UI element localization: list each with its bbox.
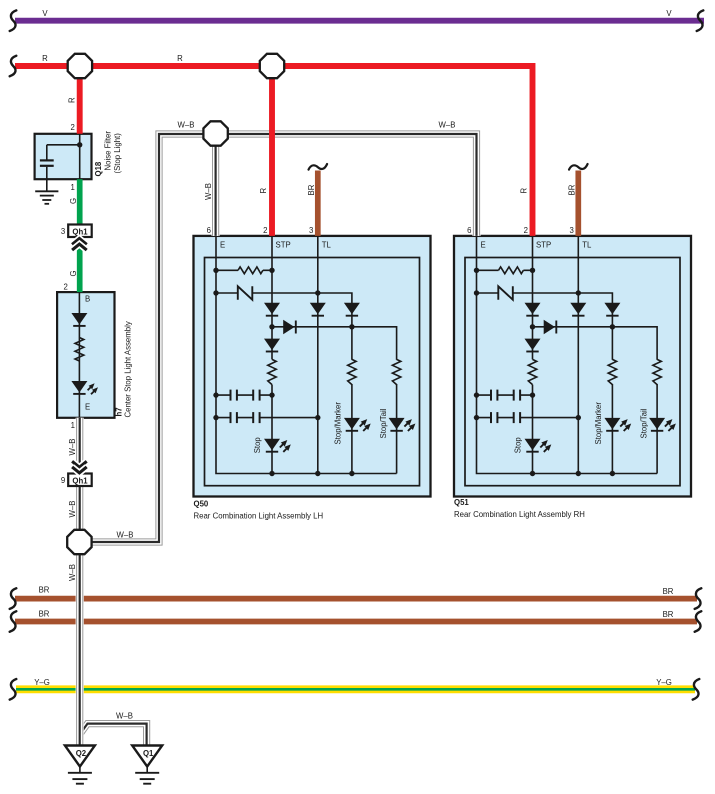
svg-text:Qh1: Qh1 bbox=[72, 476, 88, 485]
svg-text:6: 6 bbox=[207, 226, 211, 235]
connector Qh1 pin 3 bbox=[61, 225, 92, 238]
wire W-B h7 to splice bbox=[76, 418, 84, 531]
continuation mark V right bbox=[697, 10, 704, 31]
svg-text:Q50: Q50 bbox=[194, 500, 209, 509]
continuation mark Y-G left bbox=[10, 679, 17, 700]
resistor in h7 bbox=[75, 338, 84, 362]
Q50 LED stop bbox=[264, 439, 291, 452]
Q50 diode branch bbox=[344, 303, 360, 316]
svg-text:R: R bbox=[259, 188, 268, 194]
Q50 LED stop/tail bbox=[389, 418, 416, 431]
Q51 LED stop/tail bbox=[649, 418, 676, 431]
svg-text:Y–G: Y–G bbox=[656, 678, 672, 687]
svg-text:STP: STP bbox=[276, 241, 291, 250]
Q50 wire resistor row bbox=[216, 269, 272, 271]
Q51 diode right-pointing bbox=[544, 320, 557, 334]
wire BR bus 1 bbox=[15, 596, 697, 602]
svg-text:(Stop Light): (Stop Light) bbox=[113, 133, 122, 174]
Q51 capacitor pair row 2 bbox=[477, 412, 579, 423]
Q51 wire resistor row bbox=[477, 269, 533, 271]
Q51 diode STP lower bbox=[525, 339, 541, 352]
svg-text:E: E bbox=[220, 241, 225, 250]
Q50 wire N row bbox=[216, 293, 352, 474]
continuation mark BR at Q51 TL bbox=[569, 164, 588, 170]
svg-text:W–B: W–B bbox=[439, 121, 456, 130]
svg-text:W–B: W–B bbox=[204, 183, 213, 200]
svg-text:h7: h7 bbox=[114, 407, 123, 416]
svg-text:W–B: W–B bbox=[117, 530, 134, 539]
Q50 resistor tail bbox=[391, 360, 401, 384]
Q51 resistor tail bbox=[652, 360, 662, 384]
svg-text:R: R bbox=[519, 188, 528, 194]
svg-text:R: R bbox=[68, 97, 77, 103]
Q50 outer box bbox=[194, 236, 431, 497]
ground inside Q18 bbox=[35, 179, 58, 204]
svg-text:B: B bbox=[85, 295, 90, 304]
svg-text:E: E bbox=[481, 241, 486, 250]
Q51 outer box bbox=[454, 236, 691, 497]
Q50 capacitor pair row 1 bbox=[216, 390, 272, 401]
svg-text:2: 2 bbox=[64, 282, 68, 291]
Q51 diode branch bbox=[604, 303, 620, 316]
Q51 N element bbox=[498, 286, 513, 299]
svg-text:E: E bbox=[85, 403, 90, 412]
svg-text:W–B: W–B bbox=[116, 712, 133, 721]
svg-text:BR: BR bbox=[663, 587, 674, 596]
svg-text:Q51: Q51 bbox=[454, 498, 469, 507]
Q50 inner box bbox=[205, 258, 420, 486]
svg-text:W–B: W–B bbox=[68, 501, 77, 518]
svg-text:2: 2 bbox=[263, 226, 267, 235]
wire W-B from splice to Q51 pin 6 bbox=[79, 134, 476, 542]
wire R to Q50 STP bbox=[269, 66, 275, 236]
ground point Q1 bbox=[132, 746, 162, 784]
svg-text:BR: BR bbox=[39, 585, 50, 594]
connector Qh1 pin 9 bbox=[61, 474, 92, 487]
ground point Q2 bbox=[65, 746, 95, 784]
Q50 resistor marker bbox=[347, 360, 357, 384]
svg-text:Y–G: Y–G bbox=[34, 678, 50, 687]
LED in h7 bbox=[71, 381, 98, 394]
svg-text:Stop/Tail: Stop/Tail bbox=[639, 408, 648, 438]
Q50 resistor E-STP bbox=[238, 267, 263, 274]
svg-text:Stop: Stop bbox=[514, 437, 523, 454]
svg-text:Stop/Marker: Stop/Marker bbox=[594, 402, 603, 445]
svg-text:Rear Combination Light Assembl: Rear Combination Light Assembly LH bbox=[194, 512, 324, 521]
continuation mark V left bbox=[10, 10, 17, 31]
connector chevron up at Qh1 pin 3 bbox=[72, 239, 87, 251]
wire G Q18 to Qh1 bbox=[77, 179, 83, 224]
svg-text:3: 3 bbox=[309, 226, 313, 235]
wire BR to Q50 TL bbox=[315, 171, 321, 236]
continuation mark BR2 right bbox=[695, 611, 702, 632]
Q50 diode TL bbox=[310, 303, 326, 316]
wire V purple bus bbox=[15, 18, 704, 24]
Q51 LED stop bbox=[525, 439, 552, 452]
wire R to Q18 bbox=[77, 66, 83, 134]
Q51 inner box bbox=[465, 258, 680, 486]
svg-text:BR: BR bbox=[663, 610, 674, 619]
splice node on W-B ground line bbox=[67, 530, 91, 554]
svg-text:Q1: Q1 bbox=[143, 749, 154, 758]
Q51 diode STP bbox=[525, 303, 541, 316]
svg-text:9: 9 bbox=[61, 476, 65, 485]
wire Y-G bus bbox=[16, 685, 695, 693]
svg-text:Center Stop Light Assembly: Center Stop Light Assembly bbox=[123, 321, 132, 417]
wire G Qh1 to h7 bbox=[77, 237, 83, 292]
continuation mark BR1 left bbox=[10, 588, 17, 609]
wire W-B drop to Q50 pin 6 bbox=[212, 134, 220, 236]
Q18 internal wiring bbox=[47, 134, 83, 179]
svg-text:1: 1 bbox=[71, 421, 75, 430]
svg-text:Rear Combination Light Assembl: Rear Combination Light Assembly RH bbox=[454, 510, 585, 519]
Q50 diode STP bbox=[264, 303, 280, 316]
noise filter Q18 box bbox=[35, 134, 92, 179]
continuation mark R left bbox=[10, 56, 17, 77]
Q50 N element bbox=[238, 286, 253, 299]
svg-text:2: 2 bbox=[71, 123, 75, 132]
svg-text:3: 3 bbox=[61, 227, 65, 236]
h7 internal wire bbox=[78, 292, 80, 418]
Q51 resistor STP bbox=[528, 359, 536, 384]
svg-text:BR: BR bbox=[39, 610, 50, 619]
svg-text:V: V bbox=[42, 9, 48, 18]
splice node on R bus at Q50 bbox=[260, 54, 284, 78]
svg-text:R: R bbox=[177, 54, 183, 63]
Q50 wire E column bbox=[216, 236, 397, 474]
continuation mark BR1 right bbox=[695, 588, 702, 609]
continuation mark BR at Q50 TL bbox=[309, 164, 328, 170]
Q51 diode TL bbox=[570, 303, 586, 316]
connector chevron down at Qh1 pin 9 bbox=[72, 461, 87, 473]
Q51 capacitor pair row 1 bbox=[477, 390, 533, 401]
svg-text:W–B: W–B bbox=[68, 564, 77, 581]
Q51 wire E column bbox=[477, 236, 658, 474]
splice node on R bus left bbox=[68, 54, 92, 78]
svg-text:W–B: W–B bbox=[178, 121, 195, 130]
svg-text:W–B: W–B bbox=[68, 439, 77, 456]
svg-text:Qh1: Qh1 bbox=[72, 227, 88, 236]
rear combination light assembly Q50 bbox=[194, 226, 431, 497]
wire BR to Q51 TL bbox=[575, 171, 581, 236]
wire W-B splice to Q2 ground bbox=[76, 542, 84, 746]
svg-text:STP: STP bbox=[536, 241, 551, 250]
svg-text:Q18: Q18 bbox=[94, 161, 103, 176]
Q50 junction dots bbox=[213, 268, 354, 477]
splice node on W-B line bbox=[203, 121, 227, 145]
svg-text:2: 2 bbox=[524, 226, 528, 235]
Q50 wire TL column bbox=[317, 236, 319, 474]
svg-text:Stop/Marker: Stop/Marker bbox=[334, 402, 343, 445]
diode in h7 bbox=[71, 313, 87, 326]
svg-text:R: R bbox=[42, 54, 48, 63]
Q51 junction dots bbox=[474, 268, 615, 477]
Q51 LED stop/marker bbox=[604, 418, 631, 431]
svg-text:V: V bbox=[666, 9, 672, 18]
wire R red bus bbox=[15, 66, 533, 236]
center stop light assembly h7 box bbox=[57, 292, 114, 418]
svg-text:Stop/Tail: Stop/Tail bbox=[379, 408, 388, 438]
rear combination light assembly Q51 bbox=[454, 226, 691, 497]
Q50 wire junction row bbox=[272, 327, 397, 474]
Q50 capacitor pair row 2 bbox=[216, 412, 318, 423]
svg-text:Stop: Stop bbox=[253, 437, 262, 454]
Q50 diode right-pointing bbox=[283, 320, 296, 334]
capacitor in Q18 bbox=[40, 160, 54, 179]
Q50 LED stop/marker bbox=[344, 418, 371, 431]
svg-text:Noise Filter: Noise Filter bbox=[104, 131, 113, 171]
svg-text:1: 1 bbox=[71, 183, 75, 192]
svg-text:BR: BR bbox=[567, 184, 576, 195]
Q51 wire junction row bbox=[533, 327, 658, 474]
svg-text:G: G bbox=[69, 270, 78, 276]
svg-text:G: G bbox=[69, 198, 78, 204]
svg-text:TL: TL bbox=[582, 241, 592, 250]
svg-text:3: 3 bbox=[569, 226, 573, 235]
wire BR bus 2 bbox=[15, 619, 697, 625]
Q51 wire TL column bbox=[577, 236, 579, 474]
continuation mark BR2 left bbox=[10, 611, 17, 632]
svg-text:TL: TL bbox=[322, 241, 332, 250]
Q51 resistor marker bbox=[607, 360, 617, 384]
Q50 resistor STP bbox=[268, 359, 276, 384]
continuation mark Y-G right bbox=[693, 679, 700, 700]
Q51 wire STP column bbox=[532, 236, 534, 474]
svg-text:6: 6 bbox=[467, 226, 471, 235]
wire W-B branch to Q1 ground bbox=[80, 724, 147, 746]
Q51 wire N row bbox=[477, 293, 613, 474]
Q50 diode STP lower bbox=[264, 339, 280, 352]
svg-text:Q2: Q2 bbox=[76, 749, 87, 758]
Q51 resistor E-STP bbox=[499, 267, 524, 274]
Q50 wire STP column bbox=[271, 236, 273, 474]
svg-text:BR: BR bbox=[307, 184, 316, 195]
